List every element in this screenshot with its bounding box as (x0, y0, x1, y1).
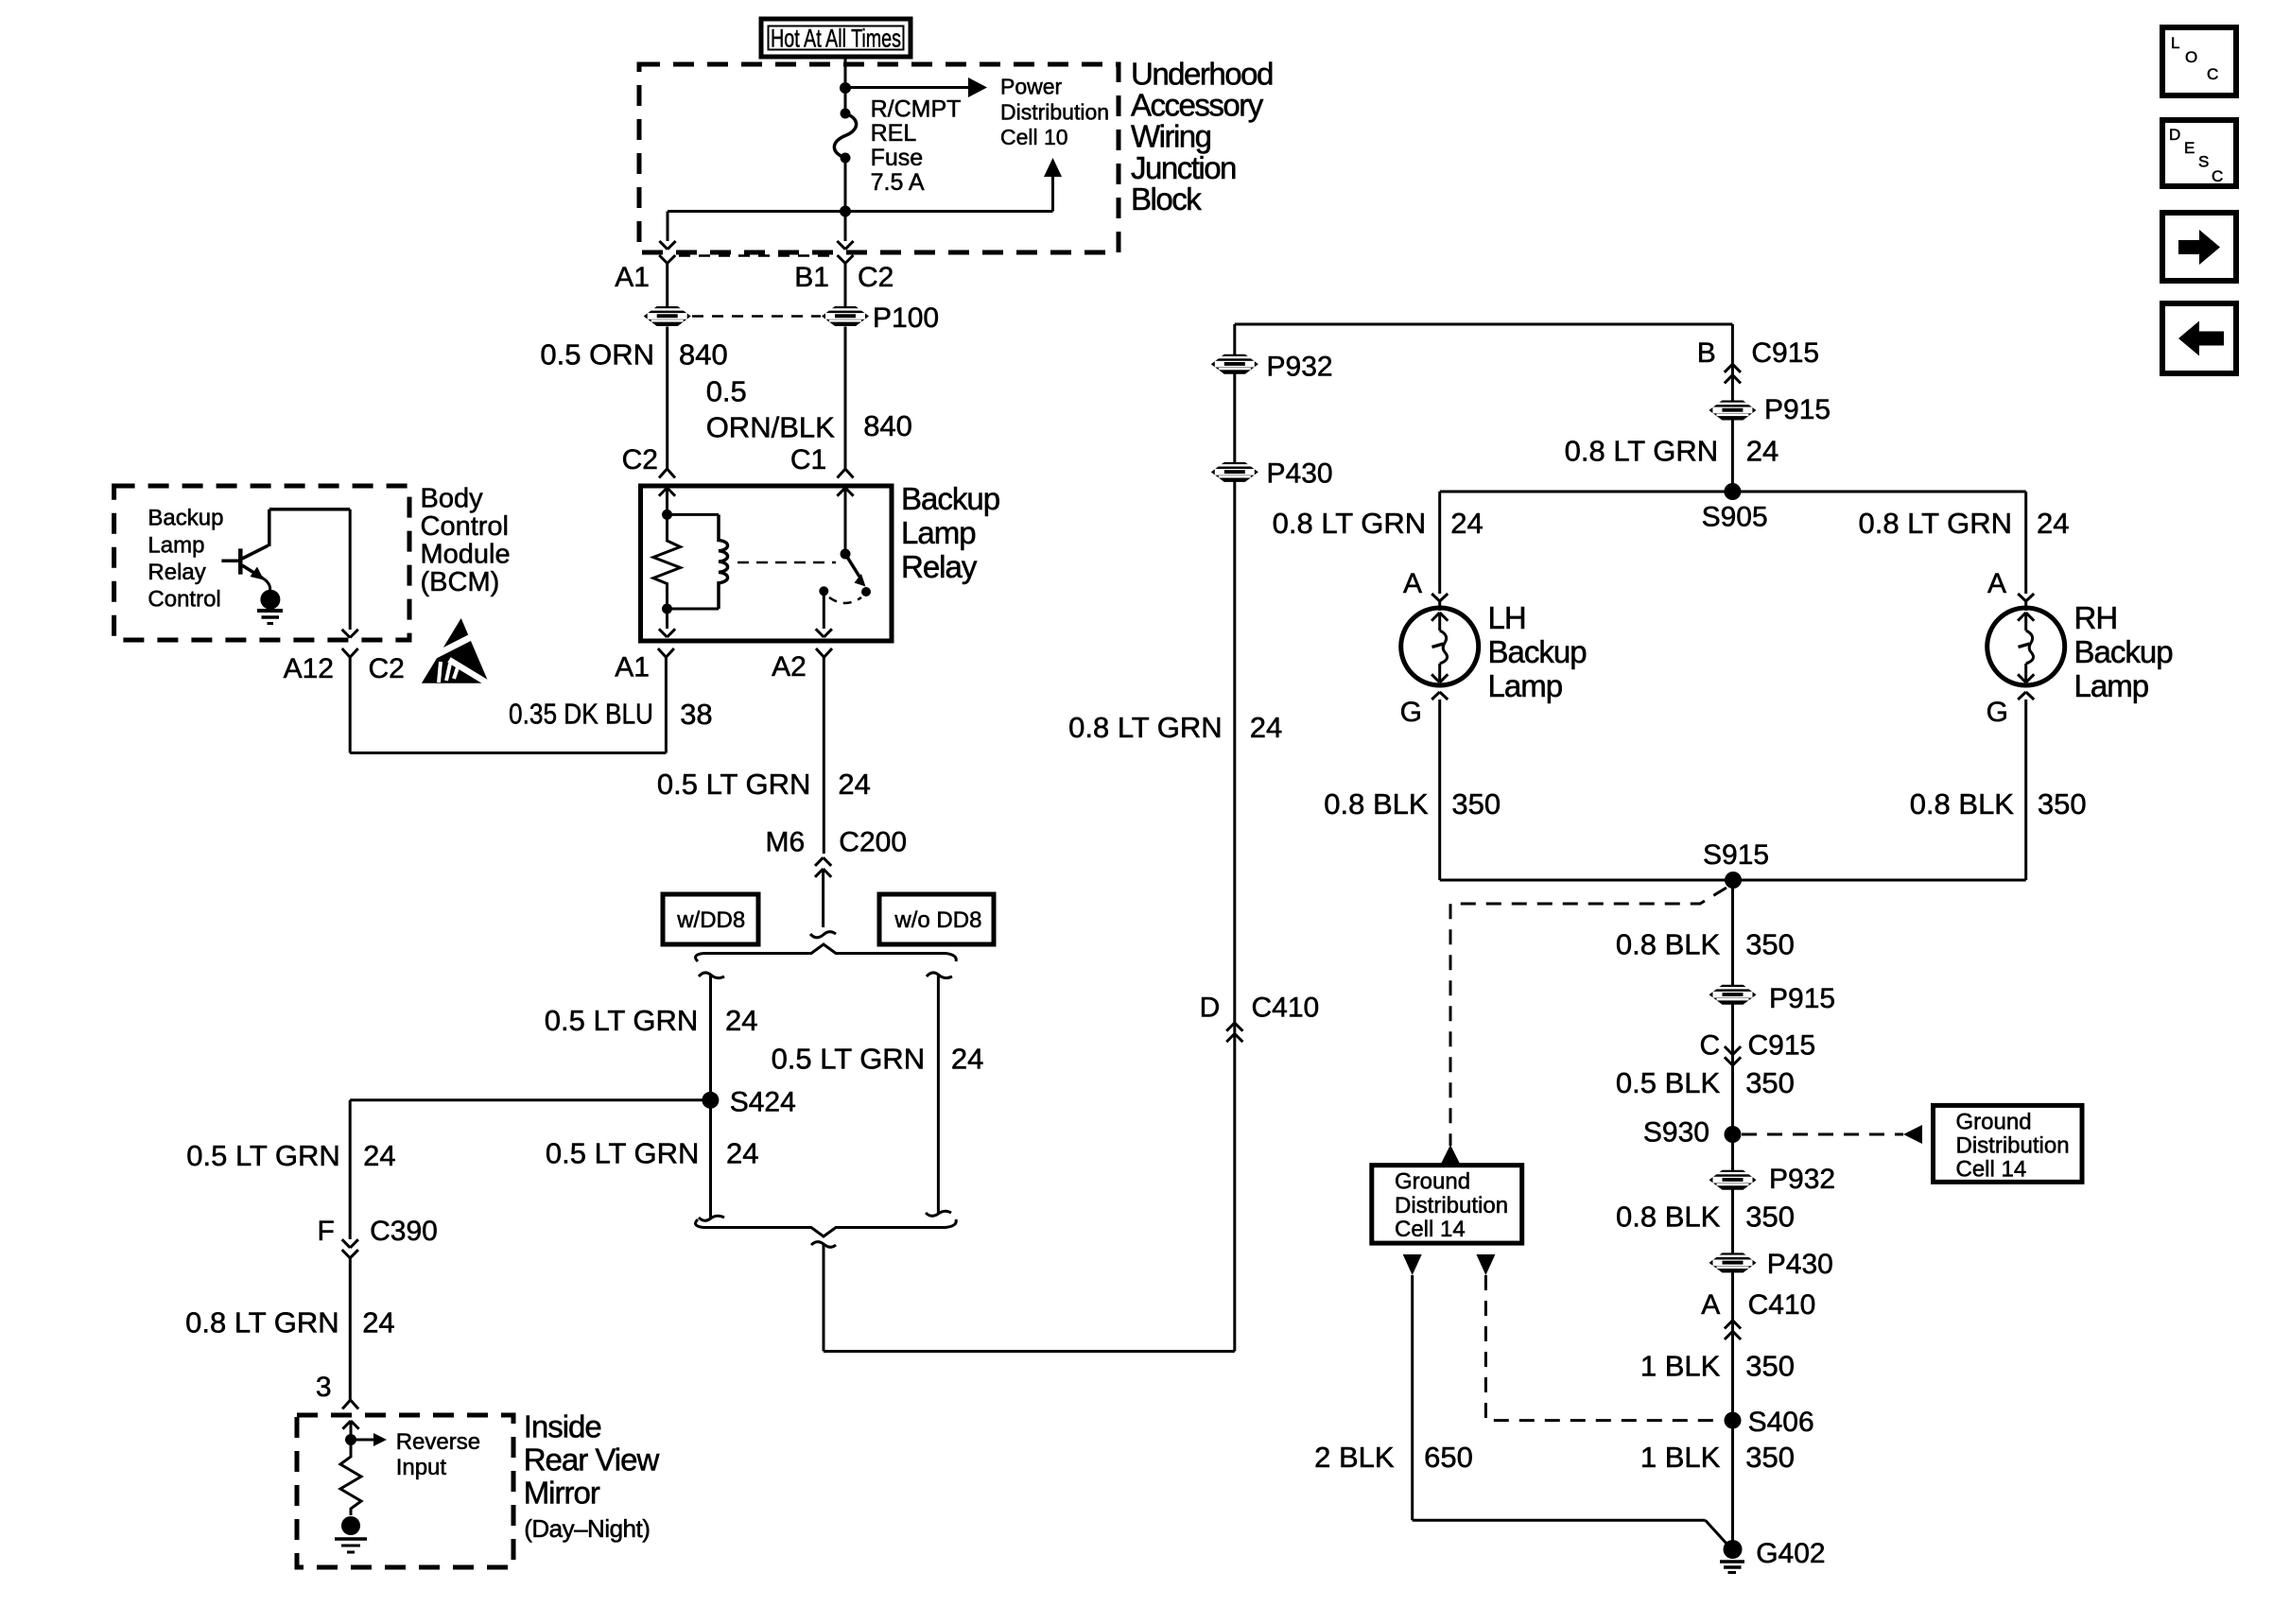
svg-text:A: A (1701, 1289, 1720, 1321)
svg-text:Distribution: Distribution (1956, 1133, 2070, 1159)
svg-text:350: 350 (1745, 1066, 1795, 1099)
svg-text:ORN/BLK: ORN/BLK (706, 411, 835, 444)
svg-text:Relay: Relay (901, 549, 978, 584)
svg-text:650: 650 (1424, 1441, 1473, 1474)
svg-text:350: 350 (2038, 787, 2087, 821)
svg-text:P915: P915 (1764, 394, 1831, 425)
svg-text:S915: S915 (1703, 839, 1769, 871)
svg-text:350: 350 (1745, 1441, 1795, 1474)
svg-text:1 BLK: 1 BLK (1640, 1349, 1721, 1382)
svg-text:Cell 14: Cell 14 (1395, 1217, 1466, 1242)
svg-text:C2: C2 (622, 444, 658, 475)
svg-text:A1: A1 (615, 262, 650, 293)
svg-text:Mirror: Mirror (524, 1475, 600, 1510)
svg-text:S905: S905 (1702, 501, 1768, 532)
svg-text:0.35 DK BLU: 0.35 DK BLU (509, 698, 653, 731)
svg-text:840: 840 (679, 338, 728, 371)
svg-text:S: S (2198, 153, 2209, 171)
svg-text:Lamp: Lamp (147, 532, 204, 558)
svg-text:w/o DD8: w/o DD8 (894, 907, 981, 933)
svg-text:C: C (2212, 167, 2223, 185)
svg-text:S930: S930 (1643, 1117, 1709, 1149)
svg-text:F: F (317, 1216, 334, 1247)
svg-text:350: 350 (1745, 928, 1795, 961)
svg-text:Module: Module (421, 540, 511, 570)
svg-text:0.8 LT GRN: 0.8 LT GRN (185, 1306, 339, 1339)
svg-text:0.8 BLK: 0.8 BLK (1616, 1201, 1721, 1234)
svg-text:P430: P430 (1267, 458, 1333, 490)
svg-text:P932: P932 (1267, 351, 1333, 382)
svg-text:A1: A1 (615, 651, 650, 682)
svg-text:24: 24 (1746, 435, 1778, 468)
svg-text:LH: LH (1488, 600, 1526, 635)
svg-text:Fuse: Fuse (871, 145, 924, 171)
svg-text:C410: C410 (1748, 1289, 1816, 1321)
svg-text:0.5 LT GRN: 0.5 LT GRN (186, 1139, 340, 1172)
svg-text:0.5: 0.5 (706, 375, 747, 408)
svg-text:0.5 BLK: 0.5 BLK (1616, 1066, 1721, 1099)
svg-text:RH: RH (2074, 600, 2118, 635)
svg-text:350: 350 (1745, 1201, 1795, 1234)
svg-text:Block: Block (1131, 181, 1202, 216)
svg-text:Input: Input (396, 1455, 447, 1480)
svg-text:0.8 LT GRN: 0.8 LT GRN (1858, 507, 2012, 540)
svg-text:Lamp: Lamp (901, 515, 976, 550)
svg-text:Backup: Backup (2074, 634, 2173, 669)
svg-text:24: 24 (838, 768, 870, 801)
svg-text:Lamp: Lamp (1488, 668, 1563, 703)
svg-text:C915: C915 (1751, 337, 1819, 369)
svg-text:L: L (2171, 34, 2179, 52)
svg-text:38: 38 (680, 698, 712, 731)
svg-text:0.8 LT GRN: 0.8 LT GRN (1068, 711, 1223, 744)
svg-text:7.5 A: 7.5 A (871, 169, 925, 196)
svg-text:D: D (2169, 126, 2180, 144)
svg-text:P100: P100 (873, 302, 939, 334)
svg-text:O: O (2185, 48, 2197, 66)
svg-text:C: C (1700, 1029, 1721, 1061)
svg-text:24: 24 (362, 1306, 394, 1339)
svg-text:24: 24 (363, 1139, 395, 1172)
svg-text:Accessory: Accessory (1131, 87, 1264, 122)
svg-text:Distribution: Distribution (1395, 1193, 1508, 1218)
svg-text:840: 840 (863, 409, 912, 442)
svg-text:G: G (1987, 697, 2008, 728)
svg-text:C200: C200 (839, 827, 907, 858)
svg-text:Junction: Junction (1131, 150, 1236, 185)
svg-text:Wiring: Wiring (1131, 119, 1211, 154)
svg-text:M6: M6 (766, 827, 806, 858)
svg-text:B: B (1697, 337, 1716, 369)
svg-text:0.5 LT GRN: 0.5 LT GRN (546, 1137, 700, 1170)
svg-text:Lamp: Lamp (2074, 668, 2149, 703)
svg-text:Inside: Inside (524, 1409, 601, 1444)
svg-text:C2: C2 (369, 653, 405, 684)
svg-text:1 BLK: 1 BLK (1640, 1441, 1721, 1474)
svg-text:24: 24 (1250, 711, 1282, 744)
svg-text:Reverse: Reverse (396, 1429, 480, 1455)
svg-text:Hot At All Times: Hot At All Times (771, 25, 901, 53)
svg-text:Ground: Ground (1956, 1110, 2032, 1135)
svg-text:24: 24 (725, 1004, 757, 1037)
svg-text:(BCM): (BCM) (421, 567, 500, 597)
svg-text:C: C (2207, 65, 2218, 83)
svg-text:E: E (2184, 139, 2195, 157)
svg-text:0.8 BLK: 0.8 BLK (1910, 787, 2015, 821)
svg-text:24: 24 (951, 1043, 983, 1076)
svg-text:C915: C915 (1748, 1029, 1816, 1061)
svg-text:A12: A12 (284, 653, 334, 684)
svg-text:Ground: Ground (1395, 1169, 1470, 1195)
svg-text:Distribution: Distribution (1000, 100, 1109, 125)
svg-text:3: 3 (316, 1372, 332, 1403)
svg-text:2 BLK: 2 BLK (1314, 1441, 1395, 1474)
svg-text:S406: S406 (1748, 1407, 1814, 1438)
svg-text:D: D (1200, 992, 1221, 1023)
svg-text:(Day–Night): (Day–Night) (524, 1514, 650, 1543)
svg-text:A2: A2 (772, 651, 807, 682)
svg-text:C2: C2 (858, 262, 894, 293)
svg-text:0.5 LT GRN: 0.5 LT GRN (657, 768, 811, 801)
svg-text:Relay: Relay (147, 560, 205, 585)
svg-text:Backup: Backup (147, 506, 223, 531)
svg-text:Cell 14: Cell 14 (1956, 1157, 2027, 1183)
svg-text:24: 24 (2037, 507, 2069, 540)
svg-text:Power: Power (1000, 75, 1063, 99)
svg-text:Rear View: Rear View (524, 1443, 660, 1477)
svg-text:Cell 10: Cell 10 (1000, 125, 1068, 149)
svg-text:24: 24 (1450, 507, 1483, 540)
svg-text:A: A (1987, 568, 2006, 599)
svg-text:C390: C390 (370, 1216, 438, 1247)
svg-text:350: 350 (1451, 787, 1501, 821)
svg-text:24: 24 (726, 1137, 758, 1170)
svg-text:w/DD8: w/DD8 (676, 907, 745, 933)
svg-text:0.5 ORN: 0.5 ORN (540, 338, 654, 371)
svg-text:P932: P932 (1769, 1164, 1835, 1195)
svg-text:Control: Control (421, 511, 510, 542)
svg-text:Underhood: Underhood (1131, 56, 1273, 91)
svg-text:Body: Body (421, 484, 484, 514)
svg-text:G402: G402 (1756, 1538, 1825, 1569)
svg-text:R/CMPT: R/CMPT (871, 95, 962, 122)
svg-text:0.8 LT GRN: 0.8 LT GRN (1273, 507, 1427, 540)
svg-text:0.5 LT GRN: 0.5 LT GRN (772, 1043, 926, 1076)
svg-text:A: A (1403, 568, 1422, 599)
svg-text:B1: B1 (794, 262, 829, 293)
svg-text:S424: S424 (730, 1086, 796, 1117)
svg-text:Backup: Backup (1488, 634, 1587, 669)
svg-text:C410: C410 (1252, 992, 1320, 1023)
svg-text:0.8 LT GRN: 0.8 LT GRN (1565, 435, 1719, 468)
svg-text:0.8 BLK: 0.8 BLK (1616, 928, 1721, 961)
svg-text:REL: REL (871, 120, 917, 147)
svg-text:Control: Control (147, 586, 220, 612)
svg-text:G: G (1400, 697, 1422, 728)
svg-text:P915: P915 (1769, 983, 1835, 1014)
svg-text:0.5 LT GRN: 0.5 LT GRN (545, 1004, 699, 1037)
svg-text:C1: C1 (790, 444, 826, 475)
svg-text:350: 350 (1745, 1349, 1795, 1382)
svg-text:P430: P430 (1767, 1249, 1833, 1280)
svg-text:Backup: Backup (901, 481, 999, 516)
svg-text:0.8 BLK: 0.8 BLK (1324, 787, 1429, 821)
